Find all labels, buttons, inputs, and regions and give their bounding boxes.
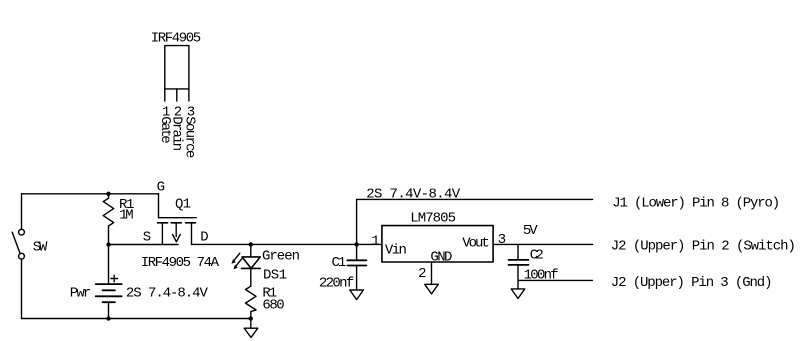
junction dot at LED branch bottom	[249, 316, 253, 320]
junction dot at R1 top	[106, 192, 110, 196]
wire LED branch to ground	[250, 319, 252, 329]
wire gnd net to J2 pin 3	[518, 279, 592, 281]
svg-text:D: D	[200, 229, 208, 245]
svg-text:LM7805: LM7805	[410, 210, 456, 226]
svg-text:IRF4905: IRF4905	[151, 31, 201, 47]
svg-text:5V: 5V	[523, 223, 538, 239]
ground (LED branch)	[244, 328, 258, 337]
ground (C1)	[350, 290, 364, 300]
svg-text:S: S	[143, 230, 151, 246]
svg-text:J2 (Upper) Pin 3 (Gnd): J2 (Upper) Pin 3 (Gnd)	[611, 275, 773, 291]
wire source rail	[109, 244, 179, 246]
svg-text:3: 3	[498, 232, 506, 248]
svg-text:1: 1	[371, 234, 379, 250]
svg-text:220nf: 220nf	[319, 275, 354, 291]
wire 2S net to J1	[357, 198, 593, 200]
svg-text:J2 (Upper) Pin 2 (Switch): J2 (Upper) Pin 2 (Switch)	[611, 239, 796, 255]
LED arrow 2	[233, 259, 241, 270]
svg-text:J1 (Lower) Pin 8 (Pyro): J1 (Lower) Pin 8 (Pyro)	[612, 195, 780, 211]
svg-text:C1: C1	[332, 255, 347, 271]
svg-text:Q1: Q1	[175, 197, 191, 213]
svg-text:G: G	[157, 180, 165, 196]
op-amp U1 LM7805 box	[382, 226, 493, 262]
svg-text:2S 7.4-8.4V: 2S 7.4-8.4V	[126, 285, 209, 301]
resistor R1 1M	[103, 194, 114, 245]
svg-text:2S 7.4V-8.4V: 2S 7.4V-8.4V	[366, 187, 461, 203]
ground (C2)	[511, 289, 525, 299]
wire drain rail to Vin	[192, 243, 382, 245]
junction dot at C1/2S branch	[354, 242, 358, 246]
svg-text:680: 680	[262, 298, 284, 314]
svg-text:IRF4905 74A: IRF4905 74A	[141, 255, 220, 271]
svg-text:SW: SW	[33, 239, 48, 255]
junction dot at LED branch	[249, 242, 253, 246]
svg-text:Source: Source	[182, 116, 198, 158]
junction dot at source/R1/battery	[106, 242, 110, 246]
resistor R1 680	[246, 286, 257, 318]
LED DS1	[242, 244, 261, 286]
svg-text:DS1: DS1	[263, 267, 287, 283]
LED arrow 1	[231, 253, 239, 264]
battery Pwr	[96, 245, 122, 319]
svg-text:Vin: Vin	[385, 242, 407, 258]
capacitor C2	[509, 244, 529, 289]
junction dot at battery bottom	[106, 316, 110, 320]
svg-text:2: 2	[418, 266, 426, 282]
switch SW	[12, 194, 24, 319]
plus sign	[111, 275, 118, 282]
wire 2S net vertical	[356, 199, 358, 244]
svg-text:Green: Green	[262, 249, 300, 265]
svg-text:C2: C2	[530, 248, 544, 264]
wire top rail (switch to gate)	[22, 193, 159, 195]
wire bottom rail	[22, 318, 252, 320]
capacitor C1	[347, 244, 366, 290]
svg-text:1M: 1M	[119, 208, 133, 224]
ground (U1)	[425, 284, 439, 294]
svg-text:Pwr: Pwr	[70, 285, 92, 301]
package outline U$1 IRF4905 (TO-220 top view)	[165, 46, 189, 101]
transistor Q1 IRF4905 (P-MOSFET)	[158, 194, 197, 245]
svg-text:Vout: Vout	[462, 235, 489, 251]
wire Vout to J2 pin 2	[493, 243, 592, 245]
svg-text:GND: GND	[430, 249, 452, 265]
wire U1 GND pin	[431, 262, 433, 284]
